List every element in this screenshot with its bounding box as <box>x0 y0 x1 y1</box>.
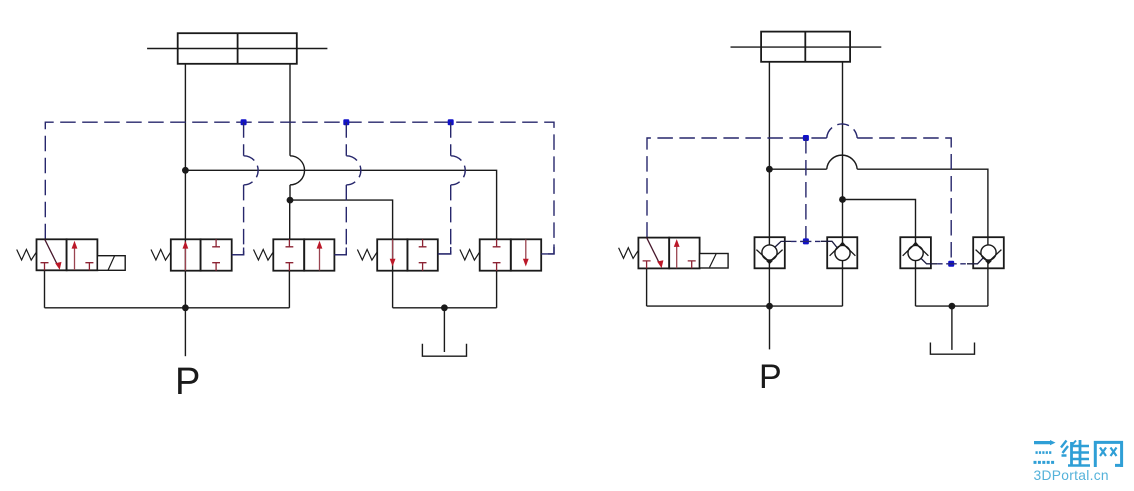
V4 blocked T bottom (right box, red) <box>419 263 427 271</box>
pilot branch A: node to valve V2 pilot, hop over y=170 wire <box>232 122 244 255</box>
pilot branch C: node to valve V4 pilot, hop over y=170 wire <box>438 122 451 254</box>
pilot node D3 (blue) at (951.2,263.8) <box>948 261 954 267</box>
cylinder A2 (right circuit, double-acting body) <box>761 32 850 62</box>
V3 blocked T bottom (left box, red) <box>286 263 294 271</box>
junction dot at (185,170) <box>182 167 189 174</box>
wire: valve V1 bottom port to supply bus <box>44 271 46 308</box>
exhaust sink symbol (right circuit) <box>930 343 974 355</box>
V3 blocked T top (left box, red) <box>286 239 294 247</box>
check valve CV3 (pilot-operated, seat up) <box>900 237 937 268</box>
wire: horizontal line y=200 from node x=290 to valve V4 drop <box>290 200 393 308</box>
PV manual override box with lever slash <box>700 254 729 269</box>
wire: supply stub down to P label (right) <box>769 306 771 349</box>
svg-text:P: P <box>759 358 782 396</box>
valve V3 (3/2, blocked left, arrow right) <box>254 239 347 270</box>
pilot node D1 (blue) at (805.9,137.2) <box>803 135 809 141</box>
wire: stub down to exhaust sink <box>443 308 445 352</box>
pilot hop arc (dashed) at x=243.6 <box>244 156 259 185</box>
pilot node D2 (blue) at (805.9,241.4) <box>803 238 809 244</box>
exhaust sink symbol (left circuit) <box>422 344 466 356</box>
valve V2 (3/2, open flow up) <box>151 239 244 270</box>
pilot node C (blue) on dashed bus <box>448 119 454 125</box>
junction dot at (842.5,199.5) <box>839 196 846 203</box>
V2 blocked T top (right box, red) <box>212 239 220 247</box>
V1 blocked port T (bottom left, red) <box>41 263 49 271</box>
V2 blocked T bottom (right box, red) <box>212 263 220 271</box>
V2 flow arrow up (left box, red) <box>184 247 186 271</box>
V4 flow arrow down (left box, red) <box>392 240 394 261</box>
valve V1 (3/2 pilot valve with spring and manual override) <box>17 239 126 270</box>
valve V5 (3/2, blocked left, arrow down right) <box>460 239 554 270</box>
wire: horizontal y=169 from left junction, hop arc over x=842.5, to CV4 drop <box>769 169 988 306</box>
wire: cylinder A2 right port down to node then through check valve CV2 <box>842 62 844 306</box>
V2 spring <box>151 249 171 260</box>
check valve CV1 (pilot-operated, seat down) <box>755 237 792 268</box>
wire: cylinder A2 left port down through check valve CV1 to bus <box>768 62 770 306</box>
junction dot on exhaust bus <box>441 304 448 311</box>
wire: cylinder A1 right port down to node, with hop over horizontal wire <box>289 64 291 200</box>
V4 blocked T top (right box, red) <box>419 239 427 247</box>
wire: cylinder A1 left port down through valve V2 to supply bus <box>184 64 186 308</box>
junction dot on right exhaust bus <box>949 303 956 310</box>
watermark logo: stylized character WANG (net frame with crosses) <box>1095 442 1121 467</box>
junction dot on right supply bus <box>766 303 773 310</box>
V3 spring <box>254 249 274 260</box>
watermark logo: stylized character WEI <box>1061 440 1090 467</box>
pilot node B (blue) on dashed bus <box>343 119 349 125</box>
pilot line loop (dashed) from valve V1 top around to valve V5 pilot <box>45 122 554 254</box>
PV flow arrow up (right box, red) <box>676 245 678 268</box>
pilot hop arc (dashed) at x=450.7 <box>451 156 466 185</box>
V5 blocked T top (left box, red) <box>493 239 501 247</box>
check valve CV4 (pilot-operated, seat down) <box>967 237 1004 268</box>
wire: valve V3 bottom port to supply bus <box>288 271 290 308</box>
V5 spring <box>460 249 480 260</box>
V3 pilot elbow (solid navy) <box>334 248 346 255</box>
pilot stubs (dashed) from node D3 to CV3 and CV4 <box>937 263 967 265</box>
pilot line (dashed): PV top up, across, hop arc over x=842.5, down to node D3 <box>647 138 951 264</box>
pilot stubs (dashed) from node D2 to CV1 and CV2 <box>791 240 821 242</box>
junction dot on supply bus <box>182 304 189 311</box>
wire: supply stub down to P label <box>184 308 186 356</box>
svg-text:3DPortal.cn: 3DPortal.cn <box>1034 468 1109 483</box>
pilot node A (blue) on dashed bus <box>241 119 247 125</box>
valve V4 (3/2, arrow down left, blocked right) <box>357 239 450 270</box>
V1 spring <box>17 249 37 260</box>
PV transition diagonal with red arrowhead <box>647 238 660 264</box>
wire: node down to valve V3 top port <box>289 200 291 239</box>
wire: stub down to exhaust sink (right) <box>951 306 953 350</box>
wire hop arc (black) at crossing x=290 y=170 <box>290 156 305 185</box>
V5 pilot elbow (solid navy) <box>541 247 554 254</box>
wire: exhaust bus between V4 and V5 <box>393 307 497 309</box>
wire: supply bus P (right circuit) <box>647 305 843 307</box>
V1 transition diagonal with red arrowhead <box>45 239 58 265</box>
V1 flow arrow up (right box, red) <box>74 247 76 270</box>
V3 flow arrow up (right box, red) <box>319 247 321 271</box>
V4 pilot elbow (solid navy) <box>438 247 451 254</box>
piston rod line of cylinder A2 <box>731 46 882 48</box>
wire: exhaust bus between CV3 and CV4 <box>916 305 988 307</box>
V1 blocked port T (right box, red) <box>85 263 93 271</box>
wire: supply bus P (left circuit) <box>45 307 290 309</box>
PV blocked port T (right box, red) <box>688 261 696 269</box>
wire: valve V5 lower port to bus <box>496 271 498 308</box>
pilot branch B: node to valve V3 pilot, hop over y=170 wire <box>334 122 346 255</box>
PV spring <box>619 248 639 259</box>
V5 blocked T bottom (left box, red) <box>493 263 501 271</box>
pilot hop arc (dashed) over vertical at (842.5,137.2) <box>827 124 858 138</box>
check valve CV2 (pilot-operated, seat up) <box>821 237 857 268</box>
V1 manual override box with lever slash <box>97 256 125 271</box>
pilot valve PV (3/2 with spring and manual override) <box>619 238 729 269</box>
V4 spring <box>357 249 377 260</box>
wire: horizontal y=199.5 from node to CV3 drop <box>843 200 916 307</box>
cylinder A1 (left circuit, double-acting body) <box>178 33 297 64</box>
piston rod line of cylinder A1 <box>147 48 327 50</box>
wire: pilot valve PV bottom port to bus <box>646 268 648 306</box>
V2 pilot elbow (solid navy) <box>232 248 244 255</box>
watermark logo: stylized character SAN (three bars) <box>1034 440 1056 462</box>
V5 flow arrow down (right box, red) <box>525 240 527 261</box>
PV blocked port T (bottom left, red) <box>643 261 651 269</box>
pilot branch (dashed): node D1 down to node D2 <box>805 138 807 241</box>
wire hop arc (black) over vertical at (842.5,169.2) <box>827 155 858 169</box>
svg-text:P: P <box>175 361 200 403</box>
wire: horizontal line y=170 from junction to valve V5 drop <box>185 170 496 239</box>
junction dot at (290,200) <box>287 197 294 204</box>
junction dot at (769.4,169.2) <box>766 166 773 173</box>
pilot hop arc (dashed) at x=346.3 <box>346 156 361 185</box>
